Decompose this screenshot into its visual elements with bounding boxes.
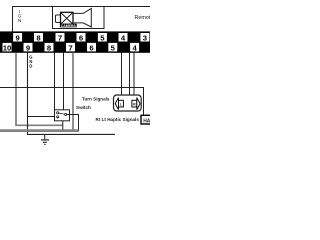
svg-text:HA: HA (143, 118, 150, 124)
pin 6 bottom (87, 43, 96, 52)
wire gray band lower (0, 130, 79, 132)
pin 4 bottom (130, 43, 139, 52)
svg-text:7: 7 (58, 34, 62, 43)
turn signal indicator box (114, 95, 142, 111)
wire IGN vertical (12, 7, 14, 32)
wire gray pin9 down (16, 53, 63, 126)
svg-text:8: 8 (47, 43, 52, 52)
wire pin8 down to switch (54, 53, 56, 111)
pin 6 top (77, 33, 86, 42)
switch contacts (57, 112, 67, 118)
wire GND branch to switch (28, 116, 55, 118)
pin 7 top (56, 33, 65, 42)
connector pins numbered boxes (3, 33, 150, 52)
svg-text:8: 8 (36, 34, 41, 43)
svg-text:6: 6 (79, 34, 83, 43)
svg-text:4: 4 (121, 34, 126, 43)
svg-text:R: R (133, 102, 136, 106)
pin 3 top (140, 33, 149, 42)
svg-text:6: 6 (89, 43, 93, 52)
pin 5 bottom (108, 43, 117, 52)
camera body and horn (73, 8, 91, 27)
camera lens barrel (56, 15, 61, 23)
wire top horizontal to Remote (12, 6, 150, 8)
svg-text:4: 4 (132, 43, 137, 52)
svg-text:Rt Lt Haptic Signals: Rt Lt Haptic Signals (96, 117, 140, 122)
camera enclosure box (53, 7, 105, 29)
pin 8 top (34, 33, 43, 42)
pin 9 top (13, 33, 22, 42)
svg-text:Turn Signals: Turn Signals (82, 97, 110, 102)
haptic module box (141, 115, 155, 124)
camera crossed box (61, 12, 74, 24)
svg-text:Remote: Remote (135, 15, 151, 21)
wire pin7 down to switch (63, 53, 65, 111)
svg-text:9: 9 (26, 43, 30, 52)
wire switch bottom (62, 121, 64, 132)
svg-text:7: 7 (68, 43, 72, 52)
svg-text:5: 5 (111, 43, 116, 52)
pin 4 top (119, 33, 128, 42)
pin 10 bottom (3, 43, 12, 52)
svg-text:Switch: Switch (76, 105, 91, 110)
svg-text:GND: GND (29, 55, 32, 69)
pin 7 bottom (66, 43, 75, 52)
wire pin4 down to L arrow (121, 53, 123, 101)
switch box (55, 110, 70, 121)
turn arrow L (115, 98, 123, 110)
svg-text:10: 10 (3, 43, 12, 52)
wire pin4 down to R arrow (133, 53, 135, 101)
label CAMERA black bar (60, 24, 77, 28)
connector strip black band (0, 31, 150, 52)
ground symbol (41, 134, 49, 144)
pin 5 top (98, 33, 107, 42)
wire switch common (67, 115, 78, 132)
wire pin down to turn box (129, 53, 131, 96)
wire gray band upper (0, 129, 79, 131)
svg-text:3: 3 (143, 34, 147, 43)
svg-text:IGN: IGN (18, 9, 22, 23)
wire haptic bus horizontal (0, 88, 144, 116)
svg-text:CAMERA: CAMERA (61, 24, 77, 28)
wire GND down to ground bus (28, 53, 116, 135)
pin 8 bottom (45, 43, 54, 52)
svg-text:5: 5 (100, 34, 105, 43)
wire gray pin7 down (72, 53, 74, 131)
turn arrow R (132, 98, 140, 110)
svg-text:9: 9 (15, 34, 19, 43)
pin 9 bottom (24, 43, 33, 52)
